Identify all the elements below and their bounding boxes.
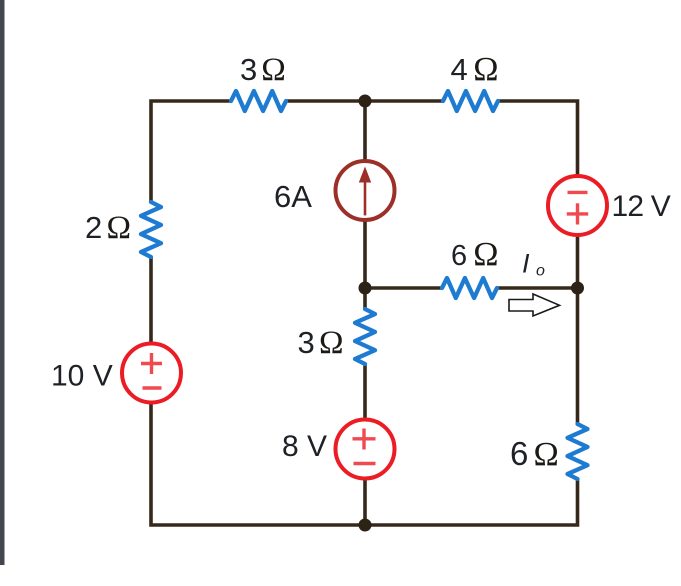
wire top-middle: 3ohm to 4ohm through node B: [286, 99, 443, 103]
wire left middle: 2ohm down to source 10V: [149, 257, 153, 343]
8V minus sign (bottom): [354, 462, 376, 465]
label Io current: [522, 249, 545, 280]
wire middle: 6A down to node D: [363, 220, 367, 309]
node F junction dot (center row right): [571, 282, 584, 295]
resistor 3 ohm (middle): [355, 309, 375, 364]
wire left lower: 10V down to bottom-left corner: [151, 403, 370, 525]
10V plus sign (top): [141, 353, 162, 374]
current source 6A circle: [336, 161, 395, 220]
10V minus sign (bottom): [143, 386, 162, 389]
current source 6A arrow: [359, 167, 371, 216]
wire middle upper: node B down to current source 6A: [363, 101, 367, 161]
wire middle lower: resistor 3ohm mid down to source 8V: [363, 364, 367, 419]
resistor 3 ohm (top left): [231, 91, 286, 111]
wire top-right: 4ohm to node C: [498, 101, 578, 176]
12V minus sign (top): [568, 191, 588, 194]
wire top-left: node A to resistor 3ohm: [151, 101, 231, 202]
wire center row left: node D to resistor 6ohm mid: [365, 286, 442, 290]
svg-text:6: 6: [510, 435, 528, 472]
resistor 4 ohm (top right): [443, 91, 498, 111]
svg-text:2: 2: [85, 210, 102, 245]
8V plus sign (top): [353, 429, 376, 450]
wire center row right: 6ohm mid to node F: [497, 286, 578, 290]
resistor 6 ohm (right): [568, 424, 588, 479]
12V plus sign (bottom): [567, 203, 588, 224]
svg-text:8 V: 8 V: [282, 430, 327, 463]
svg-text:6A: 6A: [274, 179, 312, 214]
resistor 6 ohm (center row): [442, 278, 497, 298]
svg-text:I: I: [522, 249, 530, 279]
svg-text:Ω: Ω: [261, 52, 286, 88]
svg-text:Ω: Ω: [534, 436, 559, 473]
svg-text:o: o: [536, 263, 545, 280]
voltage source 10V circle: [122, 344, 181, 403]
wire right middle: 12V down through node F to resistor 6ohm: [576, 235, 580, 424]
voltage source 8V circle: [336, 420, 395, 479]
voltage source 12V circle: [548, 176, 607, 235]
svg-text:Ω: Ω: [473, 51, 498, 88]
node B junction dot (top middle): [359, 95, 372, 108]
left gray border bar: [0, 0, 5, 565]
svg-text:Ω: Ω: [107, 210, 132, 246]
svg-text:3: 3: [240, 52, 257, 87]
svg-text:Ω: Ω: [473, 236, 498, 273]
svg-text:6: 6: [451, 240, 467, 272]
svg-text:3: 3: [298, 325, 315, 360]
resistor 2 ohm (left): [141, 202, 161, 257]
svg-text:4: 4: [451, 52, 468, 87]
node D junction dot (center row left): [359, 282, 372, 295]
wire right lower: 6ohm down to bottom-right corner: [360, 479, 578, 525]
current direction arrow Io (outlined, pointing right): [509, 294, 560, 316]
node E junction dot (bottom middle): [359, 519, 372, 532]
svg-text:Ω: Ω: [319, 325, 344, 361]
svg-text:12 V: 12 V: [612, 190, 671, 223]
svg-text:10 V: 10 V: [51, 360, 113, 393]
wire middle bottom: 8V down to node E: [363, 479, 367, 525]
